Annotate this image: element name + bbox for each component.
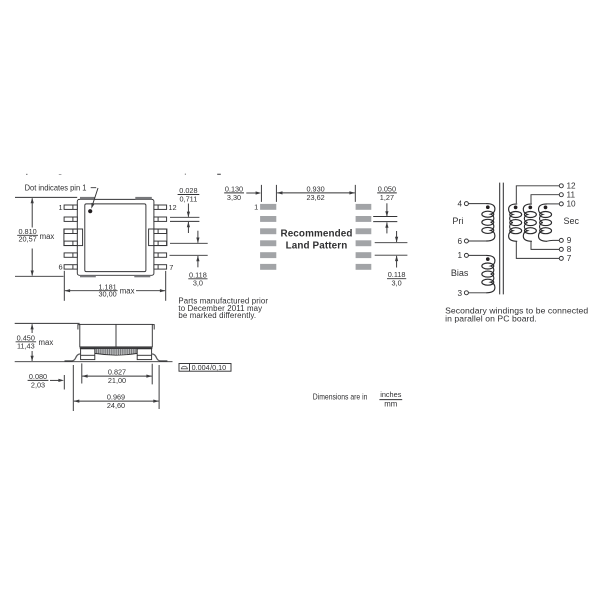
dim 0.450 extension line top (15, 322, 80, 324)
left lead pin 6 (64, 265, 77, 269)
left lead pin 3 (64, 229, 77, 233)
svg-text:12: 12 (168, 203, 176, 212)
secondary winding 1 (pins 12-7) (509, 204, 522, 241)
left lead pin 5 (64, 253, 77, 257)
lead 9 centerline (170, 242, 208, 244)
svg-text:3,0: 3,0 (392, 278, 402, 287)
svg-text:max: max (40, 232, 55, 241)
land pads left column (pads 1-6) (260, 204, 276, 270)
dim 0.810 arrowheads (31, 198, 34, 277)
wire sec1 bottom to pin 7 (516, 242, 559, 259)
terminal pin 4 (464, 202, 468, 206)
svg-text:0.969: 0.969 (107, 393, 125, 402)
side top-left corner tab tick (78, 325, 80, 330)
side body bold flange line (80, 347, 153, 349)
svg-text:12: 12 (567, 182, 577, 191)
right lead pin 7 (154, 265, 167, 269)
wire sec3 top to pin 10 (547, 203, 560, 205)
svg-text:Dimensions are in: Dimensions are in (313, 393, 368, 402)
dim 0.810/20,57 max extension line bottom (15, 275, 64, 277)
svg-text:Recommended: Recommended (280, 229, 352, 240)
dim 0.028 down arrow (187, 204, 189, 217)
dim 0.930 arrowheads (277, 191, 355, 194)
terminal pin 1 (464, 253, 468, 257)
seating plane baseline (15, 361, 173, 363)
pin 1 dot (88, 209, 92, 213)
terminal pin 12 (559, 184, 563, 188)
bias winding (482, 255, 495, 292)
sec1 polarity dot (514, 206, 518, 210)
dim 0.130 arrow (246, 192, 256, 194)
svg-text:6: 6 (457, 237, 462, 246)
dim 0.969 extension line right (158, 365, 160, 409)
top-left grey tab (80, 197, 95, 200)
svg-text:21,00: 21,00 (108, 376, 126, 385)
svg-text:max: max (120, 286, 135, 295)
dim 1.181 arrowheads (65, 289, 166, 292)
dim text 0.810/20,57 max (17, 227, 54, 244)
svg-text:9: 9 (567, 236, 572, 245)
dim 0.028 up arrow (187, 222, 189, 233)
dim 0.969 dimension line (74, 400, 159, 402)
terminal pin 6 (464, 239, 468, 243)
terminal pin 8 (559, 247, 563, 251)
dim text 0.827/21,00 (108, 368, 126, 386)
leader line to pin1 dot (91, 188, 98, 206)
pad 8 centerline (375, 254, 408, 256)
wire sec3 bottom to pin 9 (547, 239, 560, 242)
package body outline (77, 199, 154, 275)
package inner outline (85, 204, 146, 272)
dim 1.181 extension line right (165, 271, 167, 301)
dim 0.810 vertical dimension line (31, 198, 33, 275)
pad 9 centerline (375, 242, 408, 244)
dim 0.080 arrow (50, 379, 59, 381)
land pattern extension lines (261, 185, 355, 202)
dim 0.080 extension line inner (72, 365, 74, 411)
right lead pin 12 (154, 205, 167, 209)
sec2 polarity dot (528, 206, 532, 210)
note: secondary windings caption (445, 305, 588, 323)
right lead pin 11 (154, 217, 167, 221)
dim 0.050 down arrow (386, 203, 388, 216)
right pins 9-10 bracket tab (149, 229, 167, 246)
wire pin1 to Bias top (468, 254, 486, 256)
side winding bottom arc (95, 353, 137, 355)
right lead pin 8 (154, 253, 167, 257)
terminal pin 10 (559, 202, 563, 206)
dim text 0.028/0,711 (178, 186, 200, 204)
dim 0.930/23,62 dimension line (277, 192, 355, 194)
svg-text:mm: mm (384, 399, 397, 408)
top-right grey tab (135, 197, 152, 200)
sec3 polarity dot (544, 206, 548, 210)
right lead pin 9 (154, 241, 167, 245)
svg-text:1: 1 (58, 203, 62, 212)
svg-text:inches: inches (380, 390, 401, 399)
dim text 0.930/23,62 (302, 184, 329, 202)
svg-text:3: 3 (457, 289, 462, 298)
svg-text:6: 6 (58, 263, 62, 272)
dim 0.050 up arrow (386, 222, 388, 233)
terminal pin 11 (559, 193, 563, 197)
dim 0.080 extension line outer (63, 375, 65, 390)
dim text 1.181/30,00 max (98, 282, 134, 298)
dim text 0.130/3,30 (224, 184, 244, 202)
svg-text:0.004 /0,10: 0.004 /0,10 (192, 363, 227, 372)
lead 11 top edge line (170, 216, 199, 218)
note: parts manufactured prior (178, 297, 268, 321)
wire pin6 to Pri bottom (468, 240, 486, 242)
dim 0.118 land up arrow (396, 256, 398, 268)
left gull-wing lead (65, 354, 81, 361)
Pri polarity dot (486, 205, 490, 209)
bottom-right grey tab (134, 275, 150, 277)
svg-text:1: 1 (457, 251, 462, 260)
pad 11 top edge line (373, 216, 397, 218)
svg-text:Pri: Pri (452, 216, 463, 226)
svg-text:10: 10 (567, 200, 577, 209)
wire sec1 top to pin 12 (516, 186, 559, 203)
dim 0.827 extension lines (82, 363, 152, 384)
dim 0.827 dimension line (82, 375, 152, 377)
svg-text:8: 8 (567, 245, 572, 254)
dim 0.810/20,57 max extension line top (15, 196, 77, 198)
side right foot block (137, 349, 151, 360)
svg-text:1: 1 (254, 202, 258, 211)
wire sec2 top to pin 11 (531, 195, 559, 204)
lead 11 bottom edge line (170, 220, 199, 222)
svg-text:3,30: 3,30 (227, 193, 241, 202)
terminal pin 9 (559, 238, 563, 242)
svg-text:11: 11 (567, 191, 576, 200)
svg-text:be marked differently.: be marked differently. (178, 311, 256, 320)
left lead pin 2 (64, 217, 77, 221)
dim 1.181 extension line left (63, 271, 65, 301)
lead 8 centerline (170, 254, 208, 256)
bottom-left grey tab (80, 275, 96, 277)
svg-text:max: max (39, 338, 54, 347)
terminal pin 7 (559, 256, 563, 260)
left pins 3-4 bracket tab (64, 229, 83, 246)
svg-text:4: 4 (457, 200, 462, 209)
svg-text:3,0: 3,0 (193, 279, 203, 288)
secondary winding 3 (pins 10-9) (539, 204, 552, 241)
left lead pin 1 (64, 205, 77, 209)
svg-text:0,711: 0,711 (180, 194, 198, 203)
svg-text:Bias: Bias (451, 268, 469, 278)
dim 0.969 arrowheads (74, 400, 159, 403)
svg-text:Sec: Sec (564, 216, 580, 226)
side winding hatch strip (95, 349, 137, 354)
dim text 0.450/11,43 max (16, 334, 54, 351)
left foot inner line (81, 354, 95, 356)
dim 0.450 vertical dimension line (31, 324, 33, 361)
wire pin3 to Bias bottom (468, 292, 486, 294)
dim text 0.118/3,0 pkg (188, 270, 207, 287)
dim text 0.080/2,03 (28, 372, 49, 390)
flatness callout box (179, 364, 231, 372)
dim 0.827 arrowheads (82, 375, 152, 378)
svg-text:Land Pattern: Land Pattern (286, 240, 348, 251)
svg-text:in parallel on PC board.: in parallel on PC board. (445, 314, 537, 324)
side left foot block (81, 349, 95, 360)
dim text 0.050/1,27 (377, 184, 397, 202)
svg-text:24,60: 24,60 (107, 401, 125, 410)
wire pin4 to Pri top (468, 203, 486, 205)
svg-text:2,03: 2,03 (31, 381, 45, 390)
Bias polarity dot (486, 257, 490, 261)
svg-text:11,43: 11,43 (17, 341, 35, 350)
dim 0.450 arrowheads (31, 324, 34, 362)
stray page specks (26, 174, 27, 175)
left lead pin 4 (64, 241, 77, 245)
dim text 0.969/24,60 (106, 393, 127, 411)
dim 0.118 pkg down arrow (197, 231, 199, 243)
side body centerline (115, 324, 117, 347)
svg-text:Dot indicates pin 1: Dot indicates pin 1 (25, 183, 87, 192)
terminal pin 3 (464, 291, 468, 295)
svg-text:20,57: 20,57 (18, 235, 36, 244)
dim 1.181 dimension line (65, 290, 165, 292)
flatness symbol (181, 366, 188, 369)
secondary winding 2 (pins 11-8) (523, 204, 536, 241)
svg-text:30,00: 30,00 (98, 290, 116, 299)
wire sec2 bottom to pin 8 (531, 242, 559, 250)
dim 0.118 land down arrow (396, 231, 398, 242)
land pads right column (pads 7-12) (356, 204, 372, 270)
dim text 0.118/3,0 land (387, 270, 406, 287)
side top-right corner tab tick (152, 325, 154, 330)
pad 11 bottom edge line (373, 221, 397, 223)
svg-text:7: 7 (169, 263, 173, 272)
svg-text:7: 7 (567, 254, 572, 263)
leader arrowhead (91, 203, 94, 209)
side body upper block (80, 324, 153, 347)
svg-text:1,27: 1,27 (380, 193, 394, 202)
svg-text:23,62: 23,62 (306, 193, 324, 202)
transformer core (two bars) (500, 183, 504, 295)
right lead pin 10 (154, 229, 167, 233)
primary winding Pri (482, 204, 495, 241)
right gull-wing lead (152, 354, 168, 361)
right foot inner line (137, 354, 151, 356)
dim 0.118 pkg up arrow (197, 256, 199, 267)
